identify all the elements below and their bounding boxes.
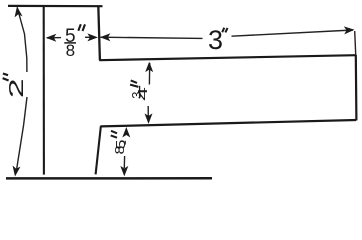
label 3/4 inch rotated: denominator 4 <box>136 87 150 101</box>
arrowhead 3 inch left <box>100 33 111 41</box>
flange bottom edge <box>101 120 356 126</box>
arrowhead 2 inch up <box>13 6 22 18</box>
label 5/8 inch top: denominator 8 <box>66 41 75 60</box>
dimension line 5/8 inch bottom, lower segment <box>123 156 125 168</box>
T-section top edge <box>8 5 103 7</box>
label 3/4 inch rotated: fraction bar <box>139 86 141 99</box>
flange right edge <box>355 55 358 121</box>
T-section stem right edge lower <box>96 126 101 175</box>
label 5/8 inch bottom rotated: numerator 5 <box>114 140 128 150</box>
T-section stem left edge <box>43 5 45 174</box>
svg-text:4: 4 <box>136 87 150 101</box>
label 2 inch (rotated) <box>6 78 28 98</box>
arrowhead 5/8 bottom down <box>120 166 128 177</box>
arrowhead 3 inch right <box>344 26 355 35</box>
svg-text:2: 2 <box>6 78 28 98</box>
dimension line 5/8 inch top, right dash <box>85 36 94 38</box>
label 2 inch double prime (two dashes) <box>3 74 9 81</box>
dimension line 5/8 inch top, left part <box>47 37 61 39</box>
dimension line 3/4 inch, lower segment <box>147 106 149 122</box>
dimension line 3 inch, right part <box>232 30 354 36</box>
arrowhead 5/8 top right <box>87 33 98 41</box>
flange top edge <box>99 55 356 60</box>
label 5/8 inch top: fraction bar <box>64 42 76 44</box>
label 3/4 inch rotated: numerator 3 <box>129 91 144 98</box>
label 3/4 inch rotated: double prime (two dashes) <box>130 80 138 87</box>
label 5/8 inch bottom rotated: denominator 8 <box>113 146 127 155</box>
svg-text:8: 8 <box>113 146 127 155</box>
arrowhead 2 inch down <box>11 166 20 178</box>
arrowhead 5/8 top left <box>46 34 57 42</box>
dimension line 2 inch, upper segment <box>17 8 27 73</box>
dimension line 3 inch, left part <box>101 37 203 38</box>
dimension line 2 inch, lower segment <box>16 97 27 172</box>
extension line at flange right under 3 inch arrow <box>355 31 356 55</box>
T-section stem right edge upper <box>98 5 100 60</box>
label 3 inch double prime (two ticks) <box>222 28 227 33</box>
arrowhead 3/4 up <box>145 62 153 73</box>
arrowhead 5/8 bottom up <box>122 127 130 138</box>
svg-text:8: 8 <box>66 41 75 60</box>
svg-text:3: 3 <box>208 25 223 55</box>
label 5/8 inch bottom rotated: double prime (two dashes) <box>111 131 117 138</box>
label 5/8 inch top: numerator 5 <box>65 26 76 47</box>
label 5/8 inch bottom rotated: fraction bar <box>124 141 126 145</box>
bottom edge / baseline <box>6 177 212 180</box>
label 5/8 inch top: double prime (two ticks) <box>78 24 85 31</box>
dimension line 3/4 inch, upper segment <box>148 63 150 85</box>
arrowhead 3/4 down <box>145 113 153 124</box>
label 3 inch <box>208 25 223 55</box>
